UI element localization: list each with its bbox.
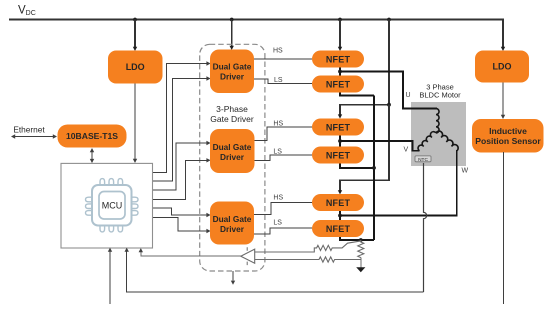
transistor NFET Q5	[312, 194, 364, 211]
node phase U junction	[338, 70, 342, 74]
svg-text:Dual Gate: Dual Gate	[213, 142, 252, 152]
svg-text:LS: LS	[273, 219, 282, 226]
svg-text:LDO: LDO	[126, 62, 145, 72]
transistor NFET Q6	[312, 220, 364, 237]
svg-text:NTC: NTC	[418, 157, 428, 163]
wire NFET Q6 source to shunt	[340, 237, 374, 240]
svg-text:BLDC Motor: BLDC Motor	[419, 91, 461, 100]
node Q4 source junction	[372, 166, 376, 170]
wire NFET Q2 source down	[340, 93, 374, 96]
net VDC label	[18, 5, 36, 18]
block MCU box	[61, 163, 153, 248]
op-amp current sense A1	[241, 247, 255, 265]
node VDC branch junction at 389,104.7	[387, 103, 391, 107]
block LDO1	[108, 51, 163, 84]
wire MCU to gate driver U4 input LS	[153, 218, 211, 234]
wire NTC to MCU	[125, 248, 424, 292]
svg-text:Driver: Driver	[220, 72, 245, 82]
wire gate driver U2 output HS to NFET Q1 gate	[254, 58, 312, 60]
svg-text:LDO: LDO	[493, 62, 512, 72]
wire MCU aux down (cropped)	[108, 248, 112, 304]
block 3 phase BLDC motor M1	[411, 102, 466, 166]
wire NFET Q5 source to Q6 drain	[339, 211, 341, 220]
wire VDC branch to NFET Q3 drain	[338, 20, 389, 119]
wire VDC to NFET Q1 drain	[338, 20, 342, 52]
wire LDO2 to position sensor	[501, 83, 505, 120]
wire MCU to gate driver U2 input HS	[153, 61, 211, 172]
node shunt top junction	[359, 238, 363, 242]
svg-text:VDC: VDC	[18, 5, 36, 18]
wire gate driver U3 output LS to NFET Q4 gate	[255, 155, 313, 160]
wire MCU to gate driver U3 input HS	[153, 141, 211, 190]
wire gate driver U4 output HS to NFET Q5 gate	[254, 203, 312, 215]
ground arrow below gate driver group	[231, 271, 235, 285]
wire NTC sense with hop over phase W	[424, 163, 427, 292]
transistor NFET Q4	[312, 147, 364, 164]
wire phase V to motor	[340, 141, 420, 151]
wire amp non-inverting input with resistor R3	[255, 257, 361, 262]
svg-text:Gate Driver: Gate Driver	[210, 114, 254, 124]
block inductive position sensor	[472, 119, 544, 153]
svg-text:NFET: NFET	[326, 79, 351, 89]
winding V coil	[418, 132, 436, 151]
svg-text:Driver: Driver	[220, 224, 245, 234]
wire 10BASE-T1S to MCU bidirectional	[90, 148, 94, 163]
wire NFET Q1 source to Q2 drain	[339, 68, 341, 76]
node VDC-NFET1 junction	[338, 18, 342, 22]
wire NFET Q3 source to Q4 drain	[339, 136, 341, 147]
wire gate driver U2 output LS to NFET Q2 gate	[254, 79, 312, 84]
wire VDC to LDO1	[133, 20, 137, 52]
svg-text:Driver: Driver	[220, 152, 245, 162]
wire phase U to motor	[340, 72, 437, 109]
resistor shunt R1	[358, 240, 364, 258]
node phase W junction	[338, 214, 342, 218]
wire shunt to ground	[360, 258, 362, 268]
wire amp inverting input with resistor R2	[255, 241, 361, 252]
svg-text:V: V	[404, 147, 409, 154]
wire Ethernet to 10BASE-T1S bidirectional	[11, 134, 57, 138]
label Ethernet	[13, 125, 45, 135]
svg-text:HS: HS	[273, 121, 283, 128]
transistor NFET Q1	[312, 51, 364, 68]
dashed boundary 3-phase gate driver group	[200, 44, 265, 271]
svg-text:HS: HS	[273, 195, 283, 202]
svg-text:Dual Gate: Dual Gate	[213, 62, 252, 72]
svg-text:NFET: NFET	[326, 122, 351, 132]
wire gate driver U3 output HS to NFET Q3 gate	[255, 127, 313, 141]
thermistor NTC	[415, 156, 431, 163]
label 3 Phase BLDC Motor	[419, 82, 461, 99]
icon MCU chip	[86, 179, 138, 232]
svg-text:Dual Gate: Dual Gate	[213, 214, 252, 224]
node VDC-halfbridge23 junction	[387, 18, 391, 22]
label 3-Phase Gate Driver	[210, 104, 254, 124]
winding U coil	[436, 108, 439, 132]
wire VDC rail	[9, 20, 503, 49]
svg-text:NFET: NFET	[326, 224, 351, 234]
label MCU	[102, 201, 123, 211]
svg-text:10BASE-T1S: 10BASE-T1S	[66, 131, 118, 141]
wire phase W to motor	[340, 150, 457, 216]
transistor NFET Q2	[312, 76, 364, 93]
svg-text:U: U	[406, 92, 411, 99]
wire amp output to MCU ADC	[139, 248, 241, 256]
node VDC-LDO1 junction	[133, 18, 137, 22]
svg-text:HS: HS	[273, 48, 283, 55]
svg-text:LS: LS	[274, 77, 283, 84]
winding W coil	[436, 131, 458, 151]
wire MCU to gate driver U2 input LS	[153, 76, 211, 181]
block LDO2	[475, 51, 529, 83]
transistor NFET Q3	[312, 119, 364, 136]
svg-text:Ethernet: Ethernet	[13, 125, 45, 135]
svg-text:NFET: NFET	[326, 150, 351, 160]
svg-text:NFET: NFET	[326, 54, 351, 64]
block dual gate driver U3	[210, 129, 255, 173]
wire gate driver U4 output LS to NFET Q6 gate	[254, 228, 312, 234]
wire VDC branch to NFET Q5 drain	[338, 105, 389, 195]
wire low-side source bus	[373, 96, 375, 241]
ground	[356, 267, 365, 272]
wire VDC to dual gate driver U2	[230, 20, 234, 51]
wire LDO1 to MCU	[133, 84, 137, 164]
wire MCU to gate driver U4 input HS	[153, 208, 211, 217]
wire VDC to right LDO2 arrowhead	[501, 47, 505, 51]
node phase V junction	[338, 139, 342, 143]
wire NFET Q4 source down	[340, 164, 374, 168]
svg-text:Position Sensor: Position Sensor	[475, 136, 541, 146]
wire position sensor output down (cropped)	[503, 152, 505, 304]
block dual gate driver U4	[210, 202, 254, 245]
block 10BASE-T1S PHY	[58, 125, 127, 148]
svg-text:LS: LS	[273, 149, 282, 156]
node VDC-GateDriver junction	[230, 18, 234, 22]
svg-text:MCU: MCU	[102, 201, 123, 211]
wire MCU to gate driver U3 input LS	[153, 158, 211, 199]
svg-text:Inductive: Inductive	[489, 126, 527, 136]
svg-text:NFET: NFET	[326, 198, 351, 208]
block dual gate driver U2	[210, 50, 254, 94]
svg-text:W: W	[462, 168, 469, 175]
svg-text:3-Phase: 3-Phase	[216, 104, 248, 114]
